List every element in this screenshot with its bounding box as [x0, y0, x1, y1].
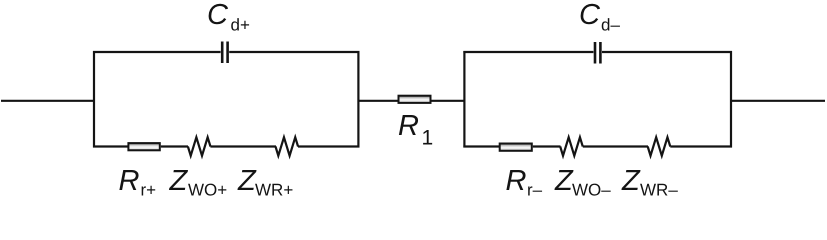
- resistor Z_WO+ zigzag: [188, 137, 211, 155]
- resistor R_r- body: [500, 144, 532, 151]
- wire input lead: [1, 100, 95, 102]
- wire left box top-left segment: [93, 51, 221, 53]
- svg-text:Z: Z: [237, 165, 257, 197]
- svg-text:Z: Z: [554, 165, 574, 197]
- wire output lead: [731, 100, 825, 102]
- svg-text:Z: Z: [621, 165, 641, 197]
- resistor R_1 body: [399, 96, 431, 103]
- capacitor C_d+ plates: [221, 42, 224, 64]
- svg-text:r+: r+: [141, 181, 157, 200]
- resistor R_r+ body: [128, 143, 159, 150]
- svg-text:C: C: [579, 0, 601, 31]
- svg-text:WR+: WR+: [255, 181, 293, 200]
- wire left box bottom segment 2: [161, 145, 188, 147]
- wire left box left vertical: [93, 51, 95, 148]
- wire right box bottom segment 1: [463, 145, 499, 147]
- wire left box top-right segment: [229, 51, 359, 53]
- wire left box bottom segment 4: [298, 145, 360, 147]
- wire right box top-left segment: [463, 51, 593, 53]
- wire right box top-right segment: [602, 51, 732, 53]
- resistor Z_WO- zigzag: [560, 137, 583, 155]
- svg-text:C: C: [207, 0, 229, 31]
- wire left box right vertical: [357, 51, 359, 148]
- svg-text:d+: d+: [231, 15, 250, 34]
- wire middle right segment: [432, 100, 466, 102]
- svg-text:R: R: [119, 165, 140, 197]
- svg-text:d–: d–: [601, 15, 620, 34]
- svg-text:WR–: WR–: [640, 181, 678, 200]
- wire right box bottom segment 2: [533, 145, 561, 147]
- resistor Z_WR+ zigzag: [276, 137, 299, 155]
- wire right box left vertical: [463, 51, 465, 148]
- wire right box bottom segment 4: [670, 145, 732, 147]
- svg-text:Z: Z: [169, 165, 189, 197]
- svg-text:WO+: WO+: [188, 181, 227, 200]
- wire middle left segment: [358, 100, 398, 102]
- wire right box right vertical: [730, 51, 732, 148]
- svg-text:1: 1: [422, 126, 434, 149]
- svg-text:r–: r–: [527, 181, 543, 200]
- resistor Z_WR- zigzag: [648, 137, 671, 155]
- svg-text:WO–: WO–: [572, 181, 611, 200]
- svg-text:R: R: [506, 165, 527, 197]
- capacitor C_d- plates: [594, 42, 597, 64]
- svg-text:R: R: [398, 110, 419, 142]
- wire left box bottom segment 1: [93, 145, 128, 147]
- wire left box bottom segment 3: [210, 145, 276, 147]
- wire right box bottom segment 3: [583, 145, 648, 147]
